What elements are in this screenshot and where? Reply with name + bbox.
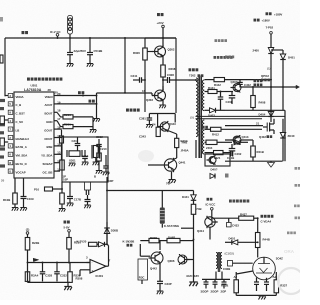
FET Q402 [263,126,267,128]
lower cell row [225,139,233,141]
wire primary bottom [195,140,197,158]
capacitor C109 [21,196,27,198]
node +24V supply label [157,13,164,16]
wire [95,158,97,162]
resistor R421 [214,151,224,155]
bus line mid2 [196,118,263,120]
transistor Q441 [164,159,176,171]
node 供电 tap2 [202,126,208,129]
diode D452 [268,48,274,54]
zener ZD405 [282,119,284,133]
wire C109 branch [23,178,25,196]
box damper outline [205,154,230,166]
resistor R212 [60,160,65,170]
wire [225,79,272,81]
wire T461 bottom [215,272,217,280]
resistor R336 [68,272,73,283]
wire [270,54,272,123]
ground [59,209,66,212]
terminal circle [68,230,71,233]
wire row R206 [57,112,63,117]
ground [93,119,100,122]
ground [146,125,153,128]
wire [73,116,93,118]
wire [238,241,258,243]
section label video circuit [126,109,140,112]
terminal circle 2 [26,232,29,235]
ground inside crystal box [69,163,76,166]
wire upper node [97,92,153,94]
resistor R437 [239,216,254,220]
ground [157,291,164,294]
wire [61,204,63,208]
wire [254,217,258,219]
wire collector Q442 [159,241,161,250]
ground [84,205,91,208]
ground [90,130,97,133]
capacitor C433 [228,218,230,222]
wire emitter Q303 to ground [162,102,164,105]
ground [82,162,89,165]
capacitor C446 [264,281,269,283]
transformer T302 label [189,68,199,71]
capacitor C308 [163,79,167,81]
left edge small box [0,55,3,63]
wire left rail into pin 1 [5,95,8,97]
transistor Q442 [151,252,163,264]
ground [103,172,110,175]
op-amp IC301 [90,260,106,274]
wire row8 to vertical [57,153,62,155]
wire base Q302 [147,51,152,53]
wire R338 branch [235,272,237,280]
wire to Q442 base [140,255,150,257]
capacitor C328 [40,271,46,273]
transistor Q314 [205,217,215,227]
box crystal filter outline [62,137,108,182]
resistor R418 [251,146,256,157]
wire emitter Q302 down [162,58,164,65]
capacitor C30B [228,261,233,267]
top left margin mark [0,17,3,22]
capacitor C402 hang [239,80,241,82]
resistor R313 [97,153,102,161]
wire [162,77,164,90]
zener D308 [106,234,108,245]
IC U201 body [14,92,54,178]
wire [27,250,29,263]
wire row9 stub [57,162,60,164]
wire left rail vertical [4,38,6,96]
IC left pin stub 2 [8,135,13,139]
CRT gun V902 [253,257,276,280]
resistor R408 [252,87,254,96]
wire [159,284,161,291]
wire to node [105,243,108,245]
wire [14,204,16,207]
wire inverting input [87,262,91,264]
left edge stub row blobs [0,99,5,102]
wire [180,240,194,242]
resistor R338 [234,280,239,293]
IC left pin stub 3 [8,93,13,97]
transistor Q403 [233,84,241,92]
wire R108 branch [14,178,16,193]
wire arrow out [241,86,296,88]
ground [64,287,72,291]
wire [161,224,163,228]
pot box P301 [138,259,148,280]
label top center faint [215,39,228,42]
capacitor C313 [105,155,107,166]
watermark blob center-left [138,150,154,162]
diode D403 [205,109,210,111]
node 音频 label [89,100,95,103]
wire [23,199,25,208]
node IC-VCC small terminal [207,198,213,201]
wire C332 branch [56,263,58,272]
wire [282,60,284,111]
resistor R303 [157,114,159,128]
wire [209,227,211,239]
wire [193,214,195,239]
wire collector Q304 [174,114,176,123]
wire output feedback vertical [108,246,110,267]
wire down to ground [96,96,98,119]
wire row R201 [57,121,63,127]
transistor Q306 [178,255,187,264]
left edge component 2 [0,138,4,146]
IC right pin stub 20 [54,95,57,97]
capacitor C462 [213,281,218,283]
bus line 21 [225,125,263,127]
connector J501 [68,16,73,35]
wire R336 branch [69,263,71,272]
wire vertical main [193,240,195,282]
connector P101 [85,182,91,190]
resistor R448 [193,200,195,204]
wire [187,259,194,261]
wire [98,161,100,170]
diode D451 [282,50,284,54]
wire row10 stub [57,170,60,172]
resistor R228 [25,238,30,251]
wire emitter Q304 down [168,131,177,135]
terminal +180V [270,32,273,35]
ground [67,203,74,206]
wire output [106,265,109,267]
wire rows into crystal box [57,128,62,130]
resistor R316 [89,242,98,246]
IC right pin stub 19 [54,103,57,105]
wire bottom bus CRT [236,294,276,296]
wire [217,141,232,143]
capacitor C216 cluster [84,150,86,156]
IC left pin stub 4 [8,119,13,123]
wire contrast bus [28,262,91,264]
wire base Q441 [148,164,162,166]
label boost line2 [261,79,270,82]
IC right pin stub 18 [54,111,57,113]
resistor R109 [45,187,53,191]
ground [189,282,198,286]
wire [133,79,140,81]
resistor R442 [214,78,225,82]
label heater supply [214,56,233,59]
wire [141,280,143,284]
wire [257,218,259,232]
wire CRT feed row [211,217,239,219]
section label CRT supply [229,200,249,203]
ground [168,180,175,184]
wire audio row [57,103,97,105]
ground [96,171,103,174]
wire C328 branch [42,263,44,272]
wire emitter Q441 to ground [171,172,173,179]
bus bottom [225,160,283,162]
resistor R230 [67,238,72,250]
resistor R206 [63,115,73,119]
wire sense vertical [106,177,108,244]
resistor R308 [161,65,166,77]
wire bottom bus [28,281,71,283]
IC U201 title [27,78,41,81]
IC left pin stub 6 [8,152,13,156]
diode D451b [225,241,232,243]
resistor R110 [60,193,65,204]
capacitor C403 [218,96,224,98]
resistor R445 [149,238,159,242]
IC left pin stub 5 [8,102,13,106]
left mid small mark [225,174,229,178]
resistor R306 [143,48,148,60]
wire caps row [202,278,230,280]
resistor R44B [255,233,260,248]
wire cathode stubs [256,278,258,282]
earth ground [270,161,272,162]
wire row resonator out [140,240,149,242]
capacitor C418 [229,148,236,150]
capacitor C463 [222,281,227,283]
ground [20,208,27,211]
wire video row [149,113,175,115]
IC left pin stub 7 [8,127,13,131]
margin text 2 [295,184,301,187]
capacitor C110 [85,199,91,201]
ground [93,162,100,165]
wire to flyback primary [170,79,197,81]
node 荧电 label [22,31,29,34]
IC left pin stub 9 [8,110,13,114]
ground [12,208,19,211]
transistor D407 symbol [209,157,216,164]
wire aux row [205,79,215,81]
label supply +180V line1 [266,12,272,15]
zener ZD411 [234,140,240,145]
wire [89,55,91,64]
label deflection line1 [261,215,274,218]
wire base Q303 from node [151,93,153,96]
wire branch to D451 [271,49,283,51]
wire ground stub [67,282,69,286]
bus line mid1 [196,115,286,117]
wire [176,148,178,158]
left edge component 1 [0,116,4,124]
margin text 5 [287,232,296,235]
box horizontal-drive outline [145,38,176,113]
capacitor C17B [69,182,71,196]
wire vertical [139,244,141,256]
transistor Q413 [233,136,241,144]
arrowhead [296,85,300,89]
IC left pin stub 1 [8,144,13,148]
wire [53,188,63,190]
diode D306 [97,243,99,245]
transistor Q303 [155,90,166,101]
capacitor C330 [157,280,163,282]
transistor Q304 [160,122,169,131]
zener D441 [193,191,195,195]
IC right pin stub 12 [54,162,57,164]
ground [67,64,74,67]
IC left pin stub 8 [8,161,13,165]
capacitor C332 [54,271,60,273]
crystal X201 [69,151,80,157]
watermark circle [278,268,304,294]
ground [159,105,166,108]
wire [68,249,70,263]
wire right edge [284,110,286,161]
IC right pin stub 13 [54,153,57,155]
margin text 1 [295,167,301,170]
wire branch down at x=125 [124,38,126,93]
margin text 3 [294,205,300,208]
wire cap branch [220,92,222,97]
wire branch C519 [89,38,91,53]
wire vertical below crystal box [61,182,63,193]
ground [258,296,265,300]
resistor R411 [208,90,217,94]
capacitor C519 22u/250V [87,52,93,54]
wire [257,248,259,258]
crystal X202 [93,146,98,158]
transformer core [198,76,200,159]
terminal +24V [162,25,165,28]
resistor R213 upper [61,130,63,136]
IC right pin stub 11 [54,170,57,172]
label line2 [254,19,260,22]
resistor R337 [275,272,277,280]
wire heater row [205,91,209,93]
wire emitter Q442 [159,265,161,282]
transformer T302 primary winding [196,78,198,137]
capacitor C412 [230,151,232,157]
wire top rail [5,37,176,39]
resistor R304 [25,272,30,282]
wire collector Q303 [162,86,164,90]
transformer T302 secondary winding [202,80,204,111]
wire R304 branch [27,263,29,272]
resistor R108 [13,193,18,204]
diode small [210,174,215,179]
node 视频 label [78,91,84,94]
capacitor C445 [254,281,259,283]
ceramic resonator striped [161,191,163,208]
wiper arrow node [33,258,39,261]
IC left pin stub 0 [8,169,13,173]
ground [87,64,94,67]
IC right pin stub 14 [54,145,57,147]
resistor R311 [175,138,179,147]
wire [205,128,211,130]
wire pulse row [107,190,194,192]
wire video out row [57,95,97,97]
resistor R412 [211,127,222,131]
wire connector to ground [69,34,71,53]
terminal supply 5-8V label [64,221,70,224]
wire non-inverting input [80,269,90,271]
resistor R446 [167,238,180,242]
transistor Q302 [155,46,166,57]
IC right pin stub 16 [54,128,57,130]
driver transformer T461 [216,253,218,269]
bus line upper [225,109,285,111]
IC right pin stub 17 [54,120,57,122]
wire [233,262,253,264]
margin text 4 [295,217,301,220]
transformer T302 secondary winding lower [202,120,204,154]
diode D404 [270,110,272,111]
wire [217,91,233,93]
resistor R201 [63,125,73,129]
wire [181,227,194,229]
wire [69,55,71,64]
IC right pin stub 15 [54,137,57,139]
terminal [211,208,214,211]
resistor R404 row [205,141,207,143]
junction dot x125 wire [124,92,126,94]
capacitor C461 [204,281,209,283]
CRT internal electrodes [256,264,272,274]
capacitor C516 22u/250V [67,52,73,54]
wire [241,139,253,141]
wire top rail to primary [195,79,197,81]
wire [73,126,93,128]
label section left of terminal [225,56,234,59]
label QPO boost cluster [254,80,263,83]
node 供电 flyback aux [198,74,204,77]
wire [159,240,167,242]
capacitor C408 [229,95,236,97]
